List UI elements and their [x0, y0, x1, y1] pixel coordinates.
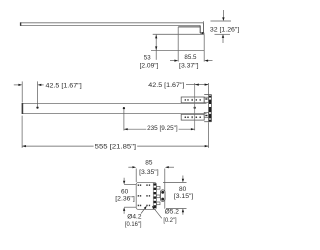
svg-text:Ø5.2: Ø5.2 — [165, 208, 180, 215]
arm bar left end cap (front view) — [22, 103, 24, 114]
upper hole block — [181, 97, 204, 103]
wall plate right edge + extension to 85.5 dim — [203, 34, 205, 61]
svg-text:[3.35"]: [3.35"] — [139, 169, 159, 176]
dim 80 [3.15"] — [163, 181, 187, 183]
wall plate top edge (top view) — [153, 33, 205, 35]
svg-text:80: 80 — [179, 186, 187, 193]
bracket plate (front view, edge-on) — [204, 95, 211, 122]
svg-text:555 [21.85"]: 555 [21.85"] — [95, 144, 137, 151]
centerline through right hole — [194, 83, 196, 130]
capsule screws — [161, 191, 164, 194]
step box top edge — [178, 26, 200, 28]
svg-text:[0.2"]: [0.2"] — [163, 217, 176, 224]
hole right — [194, 107, 196, 109]
dim 42.5 [1.67"] top-left — [21, 81, 23, 102]
bar right end edge (top view) — [203, 23, 205, 33]
plate hatch dashes — [209, 96, 211, 122]
arm bar (front view outline) — [22, 103, 207, 113]
lower block hole dots — [185, 116, 202, 118]
dim 85.5 [3.37"] horizontal — [170, 60, 213, 62]
step box left edge + extension down to 85.5 dim — [177, 27, 179, 62]
svg-text:[2.36"]: [2.36"] — [115, 196, 135, 203]
dim 85 [3.35"] — [135, 169, 137, 183]
leader Ø5.2 — [153, 207, 162, 219]
svg-text:53: 53 — [144, 54, 151, 61]
right side tabs — [156, 186, 160, 204]
arm bar (top view outline) — [20, 23, 203, 26]
svg-text:42.5 [1.67"]: 42.5 [1.67"] — [148, 82, 184, 89]
dim 235 [9.25"] — [123, 110, 125, 131]
svg-text:85.5: 85.5 — [184, 54, 196, 61]
dim 555 [21.85"] — [21, 116, 23, 148]
dim 60 [2.36"] — [124, 183, 136, 185]
lower hook tab — [204, 112, 208, 117]
svg-text:235 [9.25"]: 235 [9.25"] — [147, 125, 178, 132]
upper block hole dots — [185, 99, 202, 101]
svg-text:[3.15"]: [3.15"] — [174, 193, 194, 200]
leader Ø4.2 — [141, 207, 146, 214]
svg-text:[3.37"]: [3.37"] — [179, 63, 199, 70]
wall plate bottom edge (top view) — [151, 49, 204, 51]
svg-text:42.5 [1.67"]: 42.5 [1.67"] — [46, 82, 82, 89]
body screw marks row1 — [138, 184, 150, 186]
extension line at front face (85 dim right ext) — [164, 169, 166, 209]
dim 42.5 [1.67"] top-right — [207, 83, 209, 95]
strip hatch dashes — [154, 183, 156, 208]
svg-text:[0.16"]: [0.16"] — [125, 221, 142, 228]
svg-text:Ø4.2: Ø4.2 — [127, 213, 142, 220]
ext stub above bar right corner — [203, 21, 205, 23]
svg-text:[2.09"]: [2.09"] — [140, 63, 159, 70]
hole left — [36, 106, 38, 108]
dim 32 [1.26"] right side — [211, 20, 232, 22]
svg-text:60: 60 — [121, 188, 129, 195]
body outline — [136, 183, 156, 210]
step box right edge — [199, 26, 201, 34]
body screw marks row3 — [138, 205, 150, 207]
hole middle — [123, 107, 125, 109]
dim 53 [2.09"] vertical — [155, 35, 157, 60]
front plate strip left line — [152, 183, 154, 210]
body screw marks row2 — [138, 195, 150, 197]
arm bar left end cap (top view) — [20, 22, 21, 25]
capsule (arm clamp) — [160, 190, 165, 202]
svg-text:32 [1.26"]: 32 [1.26"] — [210, 26, 240, 33]
upper hook tab — [204, 97, 208, 102]
svg-text:85: 85 — [145, 160, 153, 167]
step bottom tick — [200, 32, 203, 34]
lower hole block — [181, 114, 204, 120]
arrowhead at step bottom corner — [202, 32, 205, 34]
